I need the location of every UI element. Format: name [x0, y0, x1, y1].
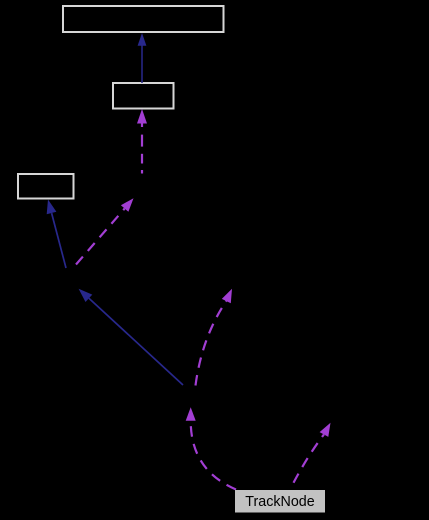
svg-text:TrackNode: TrackNode	[245, 494, 314, 510]
